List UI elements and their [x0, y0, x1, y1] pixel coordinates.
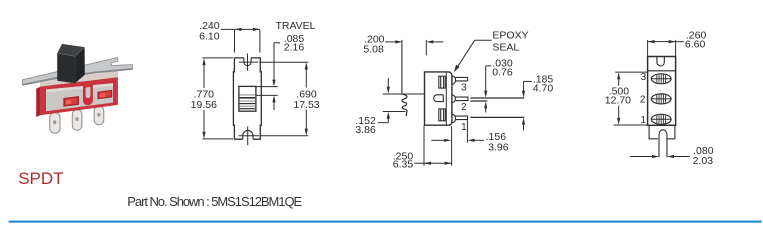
pin 2 edge extensions	[470, 98, 524, 101]
side inner face line	[445, 73, 447, 125]
mounting bracket edge line	[401, 40, 403, 94]
svg-text:Part No. Shown : 5MS1S12BM1QE: Part No. Shown : 5MS1S12BM1QE	[127, 194, 302, 209]
bracket front edge shade	[22, 68, 132, 85]
window left	[63, 96, 79, 107]
svg-text:3: 3	[641, 72, 647, 83]
FRONT VIEW	[191, 20, 320, 145]
svg-text:5.08: 5.08	[363, 44, 384, 56]
svg-text:2.16: 2.16	[284, 41, 305, 53]
dim .770/19.56	[202, 58, 233, 139]
EPOXY SEAL callout	[454, 40, 492, 72]
bracket plane extension upper	[383, 93, 425, 95]
bottom view top notch	[657, 57, 664, 66]
slider knob top face	[57, 44, 84, 56]
svg-text:SEAL: SEAL	[492, 42, 519, 54]
pin 1	[452, 114, 468, 122]
terminal 1 oval	[651, 114, 671, 124]
switch pin 3	[94, 106, 104, 125]
svg-text:6.60: 6.60	[685, 39, 706, 51]
slider serrations	[240, 95, 256, 109]
terminal 3 oval	[651, 74, 671, 84]
front bottom hole centerlines	[239, 126, 260, 145]
pin profile	[659, 130, 667, 158]
svg-text:4.70: 4.70	[533, 83, 554, 95]
svg-text:2: 2	[461, 102, 467, 113]
dim .500/12.70	[614, 72, 648, 125]
pin 1 edge extension	[470, 116, 524, 118]
dim .030/0.76	[484, 66, 491, 113]
front view bracket outline	[233, 58, 261, 139]
switch body left side face	[36, 87, 40, 117]
dim .250/6.35	[414, 126, 451, 166]
dim .260/6.60	[648, 40, 684, 56]
svg-text:3.96: 3.96	[488, 142, 509, 154]
svg-text:2: 2	[640, 94, 646, 105]
svg-text:SPDT: SPDT	[18, 169, 63, 188]
slider knob right face	[75, 47, 85, 83]
dim TRAVEL .085/2.16	[257, 43, 281, 110]
terminal 2 oval	[651, 94, 671, 104]
SIDE VIEW	[355, 30, 553, 171]
dim .185/4.70	[522, 81, 532, 130]
center arch tab	[83, 85, 93, 106]
svg-text:TRAVEL: TRAVEL	[275, 20, 315, 32]
FOOTER	[9, 169, 762, 223]
pin 3	[452, 76, 468, 84]
pin 2	[452, 95, 468, 103]
svg-text:17.53: 17.53	[293, 99, 319, 111]
slider knob front face	[57, 53, 75, 83]
svg-text:1: 1	[641, 115, 647, 126]
dim .200/5.08	[385, 40, 443, 55]
svg-text:19.56: 19.56	[191, 99, 217, 111]
front top hole centerlines	[239, 54, 258, 71]
switch body front face	[40, 77, 118, 115]
svg-text:0.76: 0.76	[492, 67, 513, 79]
bracket break squiggle	[402, 94, 407, 116]
dim .240/6.10	[221, 28, 260, 53]
terminal 2 contact	[434, 95, 444, 102]
switch body top face	[40, 70, 118, 87]
svg-text:2.03: 2.03	[693, 155, 714, 167]
svg-text:6.10: 6.10	[199, 31, 220, 43]
svg-text:1: 1	[461, 122, 467, 133]
svg-text:6.35: 6.35	[393, 159, 414, 171]
svg-text:EPOXY: EPOXY	[492, 30, 528, 42]
dim .152/3.86	[378, 78, 390, 123]
svg-text:3.86: 3.86	[355, 124, 376, 136]
ILLUSTRATION	[22, 44, 132, 133]
terminal 3 seat	[439, 76, 446, 88]
bracket inner edge line	[648, 70, 676, 72]
dim .156/3.96	[431, 120, 484, 143]
switch body metal panel	[46, 83, 113, 111]
window right	[98, 90, 113, 100]
side body outline	[425, 72, 452, 125]
panel top sheen	[46, 83, 113, 92]
bottom view body outline	[648, 57, 676, 126]
bracket plate	[22, 58, 132, 85]
front top mounting notch	[244, 58, 251, 66]
switch pin 1	[50, 113, 60, 134]
svg-text:12.70: 12.70	[605, 95, 631, 107]
front slider knob	[239, 86, 256, 111]
dim .080/2.03	[630, 155, 690, 158]
terminal 1 seat	[439, 109, 446, 121]
bracket plane extension lower	[383, 111, 406, 113]
dim .690/17.53	[260, 62, 309, 136]
svg-text:3: 3	[461, 83, 467, 94]
bottom skirt	[649, 125, 675, 139]
blue footer rule	[9, 221, 762, 223]
switch pin 2	[72, 110, 82, 131]
BOTTOM VIEW	[605, 30, 714, 167]
front bottom mounting notch	[243, 130, 253, 139]
